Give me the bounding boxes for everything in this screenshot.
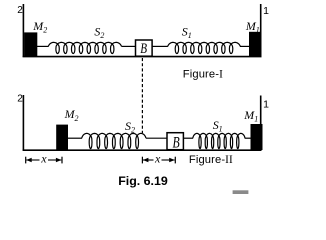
spring S1 (Figure-II) [193, 133, 245, 148]
svg-text:S2: S2 [94, 25, 104, 41]
floor line (Figure-I) [23, 56, 262, 58]
wire: block B to spring S1 (Figure-II) [183, 137, 193, 139]
spring S2 (Figure-II) [82, 133, 146, 148]
wire: M2 to spring S2 (Figure-I) [37, 45, 49, 47]
svg-text:S2: S2 [125, 119, 135, 135]
svg-text:x: x [154, 152, 161, 166]
svg-text:S1: S1 [182, 25, 192, 41]
dashed reference line from B (Figure-I) down [141, 58, 143, 133]
spring S1 (Figure-I) [168, 42, 241, 53]
svg-text:1: 1 [263, 5, 269, 17]
svg-text:2: 2 [17, 5, 23, 16]
dimension x right arrow [48, 159, 61, 161]
dimension x (dashed line to B, Figure-II): left tick [141, 157, 143, 164]
wire: spring S1 to block M1 (Figure-I) [240, 45, 250, 47]
svg-text:Fig. 6.19: Fig. 6.19 [118, 174, 168, 188]
wall 1 (Figure-II, right wall) [260, 96, 262, 151]
dimension x right tick [61, 157, 63, 164]
dimension x right arrow (B) [162, 159, 175, 161]
block M2 (Figure-II) [56, 125, 68, 151]
svg-text:B: B [173, 135, 180, 152]
floor line (Figure-II) [23, 149, 262, 151]
svg-text:x: x [40, 152, 47, 166]
svg-text:M2: M2 [32, 19, 47, 35]
wire: spring S2 to block B (Figure-I) [122, 45, 136, 47]
dimension x (wall 2 to M2, Figure-II): left tick [25, 157, 27, 164]
block M1 (Figure-II) [251, 124, 263, 150]
wall 2 (Figure-II, left wall) [22, 95, 24, 151]
svg-text:Figure-I: Figure-I [183, 69, 223, 81]
wall 1 (Figure-I, right wall) [260, 4, 262, 57]
dimension x right tick (B) [174, 157, 176, 164]
svg-text:B: B [140, 41, 147, 57]
wall 2 (Figure-I, left wall) [22, 4, 24, 57]
block M2 (Figure-I) [24, 32, 37, 56]
wire: M2 to spring S2 (Figure-II) [68, 137, 82, 139]
svg-text:M1: M1 [245, 19, 260, 35]
block B (Figure-I) [136, 40, 153, 56]
dimension x left arrow [26, 159, 39, 161]
svg-text:2: 2 [17, 94, 23, 105]
block B (Figure-II) [167, 133, 183, 150]
svg-text:M2: M2 [64, 107, 79, 123]
wire: spring S2 to block B (Figure-II) [146, 137, 167, 139]
svg-text:S1: S1 [213, 118, 223, 134]
wire: spring S1 to block M1 (Figure-II) [245, 137, 251, 139]
wire: block B to spring S1 (Figure-I) [152, 45, 168, 47]
spring S2 (Figure-I) [48, 42, 121, 53]
svg-text:1: 1 [263, 99, 269, 111]
dimension x left arrow (B) [143, 159, 154, 161]
svg-text:M1: M1 [243, 108, 258, 124]
svg-text:Figure-II: Figure-II [189, 154, 233, 166]
gray UI fragment bottom right [233, 190, 249, 195]
block M1 (Figure-I) [249, 32, 262, 57]
